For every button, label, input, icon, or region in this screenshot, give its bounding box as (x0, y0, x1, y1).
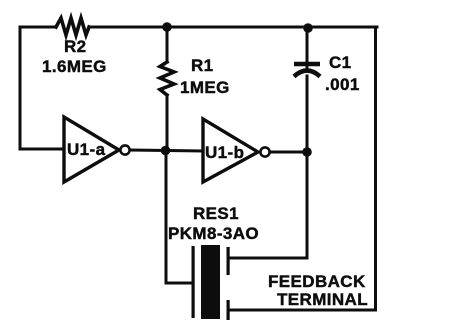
wire resonator left lead (166, 150, 192, 283)
svg-text:RES1: RES1 (193, 204, 239, 223)
wire right outer vertical (374, 27, 377, 310)
resonator RES1 (192, 245, 230, 320)
svg-text:U1-b: U1-b (205, 143, 244, 162)
wire U1-a output to U1-b input (130, 150, 203, 151)
svg-text:U1-a: U1-a (67, 140, 106, 159)
op-amp U1-b (203, 119, 270, 182)
wire R1 bottom lead (166, 95, 169, 150)
svg-text:1.6MEG: 1.6MEG (42, 57, 107, 76)
svg-text:R2: R2 (64, 37, 87, 56)
resistor R1 (160, 62, 174, 95)
wire lower terminal horizontal (230, 309, 376, 312)
node C (161, 146, 171, 156)
wire C1 bottom lead / vertical to feedback node (306, 76, 309, 258)
wire U1-b output to node (270, 151, 307, 154)
upper right electrode (227, 247, 230, 275)
op-amp U1-a (64, 117, 130, 182)
wire top left segment (20, 26, 56, 29)
wire top right segment (89, 26, 377, 29)
svg-text:1MEG: 1MEG (180, 78, 230, 97)
svg-text:TERMINAL: TERMINAL (277, 290, 368, 309)
wire R1 top lead (166, 27, 169, 62)
svg-text:.001: .001 (325, 75, 360, 94)
wire C1 top lead (306, 27, 309, 70)
wire left vertical (19, 27, 22, 149)
node B (303, 23, 313, 33)
capacitor C1 (294, 64, 320, 77)
crystal bar (201, 245, 220, 319)
resistor R2 (56, 18, 89, 35)
wire upper terminal horizontal (230, 257, 307, 260)
svg-text:PKM8-3AO: PKM8-3AO (168, 224, 259, 243)
node D (302, 147, 312, 157)
svg-text:R1: R1 (191, 56, 214, 75)
left electrode (192, 246, 195, 318)
svg-text:C1: C1 (329, 53, 352, 72)
lower right electrode (227, 300, 230, 320)
wire U1-a input (20, 148, 64, 151)
svg-text:FEEDBACK: FEEDBACK (268, 272, 366, 291)
node A (162, 22, 172, 32)
